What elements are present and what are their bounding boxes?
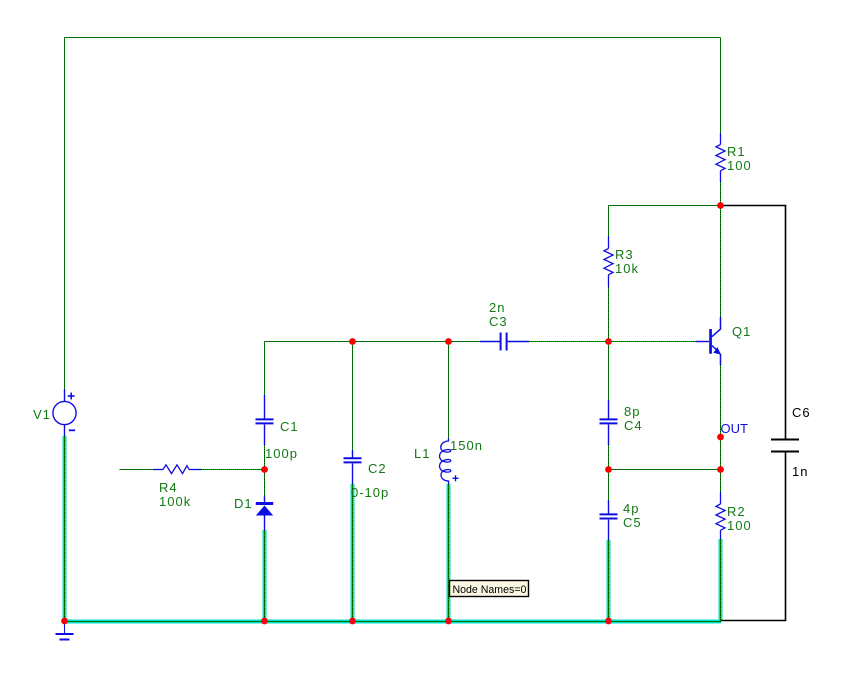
wire C4 bottom to node dot overlay [608,445,610,470]
node ground at V1 [61,618,68,625]
wire base rail right of C3 dot overlay [529,341,696,343]
wire C2 branch top dot overlay [352,342,354,451]
wire ground net L1 bottom dot overlay [448,484,450,622]
wire node C4 to OUT node horizontal [609,469,721,471]
node base rail L1 [445,338,452,345]
wire ground net C5 bottom dot overlay [608,540,610,622]
wire base rail left section [265,341,481,343]
node ground at L1 [445,618,452,625]
capacitor C2 [344,450,362,484]
wire R3 bottom to base rail [608,287,610,342]
svg-text:OUT: OUT [721,421,749,436]
svg-text:8p: 8p [624,404,640,419]
wire ground net L1 bottom [448,484,450,622]
node ground at C2 [349,618,356,625]
svg-text:100: 100 [727,518,752,533]
capacitor C5 [600,500,618,540]
annotation box Node Names=0 [450,581,529,597]
wire Q1 emitter down through OUT node dot overlay [720,365,722,492]
svg-text:R4: R4 [159,480,178,495]
wire ground net C2 bottom dot overlay [352,484,354,622]
capacitor C6 plates [771,440,799,452]
inductor L1 [439,438,450,484]
svg-text:R2: R2 [727,504,746,519]
resistor R1 [716,133,725,182]
node R4 C1 D1 [261,466,268,473]
wire top rail [65,37,721,39]
wire base rail left section dot overlay [265,341,481,343]
svg-text:2n: 2n [489,300,505,315]
wire ground net R2 bottom dot overlay [720,539,722,622]
wire right vertical to R1 dot overlay [720,38,722,134]
svg-text:D1: D1 [234,496,253,511]
svg-text:100p: 100p [265,446,298,461]
wire ground net R2 bottom [720,539,722,622]
capacitor C1 [256,395,274,445]
svg-text:1n: 1n [792,464,808,479]
resistor R3 [604,236,613,287]
transistor Q1 [696,317,721,365]
wire C1 branch top [264,342,266,396]
wire C5 branch top dot overlay [608,470,610,501]
wire C1 branch top dot overlay [264,342,266,396]
wire base rail right of C3 [529,341,696,343]
wire R1 bottom to node [720,182,722,317]
svg-text:L1: L1 [414,446,430,461]
node ground at C5 [605,618,612,625]
wire left vertical to V1 dot overlay [64,38,66,390]
svg-text:R1: R1 [727,144,746,159]
wire ground net R2 bottom highlight [719,539,723,622]
ground symbol [56,621,74,640]
capacitor C4 [600,400,618,445]
svg-text:C6: C6 [792,405,811,420]
wire Q1 emitter down through OUT node [720,365,722,492]
wire node to R3 horizontal [609,205,721,207]
voltage source V1 [53,389,76,436]
svg-text:C2: C2 [368,461,387,476]
svg-text:R3: R3 [615,247,634,262]
wire R4 right lead to node [201,469,265,471]
wire C4 bottom to node [608,445,610,470]
wire black C6 bottom segment [721,452,786,621]
wire C4 branch top [608,342,610,401]
wire ground net V1 minus highlight [63,436,67,622]
svg-text:C5: C5 [623,515,642,530]
wire ground net bottom rail [63,621,722,623]
node base rail R3 [605,338,612,345]
wire left vertical to V1 [64,38,66,390]
svg-text:Node Names=0: Node Names=0 [453,584,527,596]
svg-text:C3: C3 [489,314,508,329]
wire ground net C2 bottom highlight [351,484,355,622]
svg-text:0-10p: 0-10p [351,485,389,500]
wire ground net D1 bottom [264,530,266,622]
wire C1 bottom to R4 node and D1 [264,445,266,496]
wire right vertical to R1 [720,38,722,134]
wire node C4 to OUT node horizontal dot overlay [609,469,721,471]
wire C5 branch top [608,470,610,501]
wire R1 bottom to node dot overlay [720,182,722,317]
wire ground net D1 bottom dot overlay [264,530,266,622]
resistor R4 [153,465,201,474]
wire ground net D1 bottom highlight [263,530,267,622]
wire ground net C2 bottom [352,484,354,622]
node C4 bottom [605,466,612,473]
wire ground net C5 bottom highlight [607,540,611,622]
wire L1 branch top dot overlay [448,342,450,439]
wire C1 bottom to R4 node and D1 dot overlay [264,445,266,496]
wire ground net L1 bottom highlight [447,484,451,622]
wire C4 branch top dot overlay [608,342,610,401]
node OUT [717,434,724,441]
svg-text:V1: V1 [33,407,51,422]
svg-text:Q1: Q1 [732,324,751,339]
label L1 plus polarity mark [453,475,459,481]
diode D1 [256,496,273,530]
wire L1 branch top [448,342,450,439]
node ground at D1 [261,618,268,625]
svg-text:100k: 100k [159,494,191,509]
capacitor C3 [480,333,529,351]
wire R4 left lead dot overlay [120,469,154,471]
wire ground net C5 bottom [608,540,610,622]
wire top rail dot overlay [65,37,721,39]
wire R3 top lead [608,206,610,237]
node base rail C2 [349,338,356,345]
node R1 bottom [717,202,724,209]
svg-text:C1: C1 [280,419,299,434]
wire R3 bottom to base rail dot overlay [608,287,610,342]
wire C2 branch top [352,342,354,451]
wire black C6 top segment [721,206,786,440]
wire R4 right lead to node dot overlay [201,469,265,471]
svg-text:150n: 150n [450,438,483,453]
node R2 top [717,466,724,473]
svg-text:4p: 4p [623,501,639,516]
wire R3 top lead dot overlay [608,206,610,237]
wire ground net V1 minus [64,436,66,622]
svg-text:C4: C4 [624,418,643,433]
wire ground net bottom rail dot overlay [63,621,722,623]
wire node to R3 horizontal dot overlay [609,205,721,207]
wire R4 left lead [120,469,154,471]
svg-text:10k: 10k [615,261,639,276]
wire ground net bottom rail highlight [63,620,722,624]
wire ground net V1 minus dot overlay [64,436,66,622]
resistor R2 [716,492,725,539]
svg-text:100: 100 [727,158,752,173]
